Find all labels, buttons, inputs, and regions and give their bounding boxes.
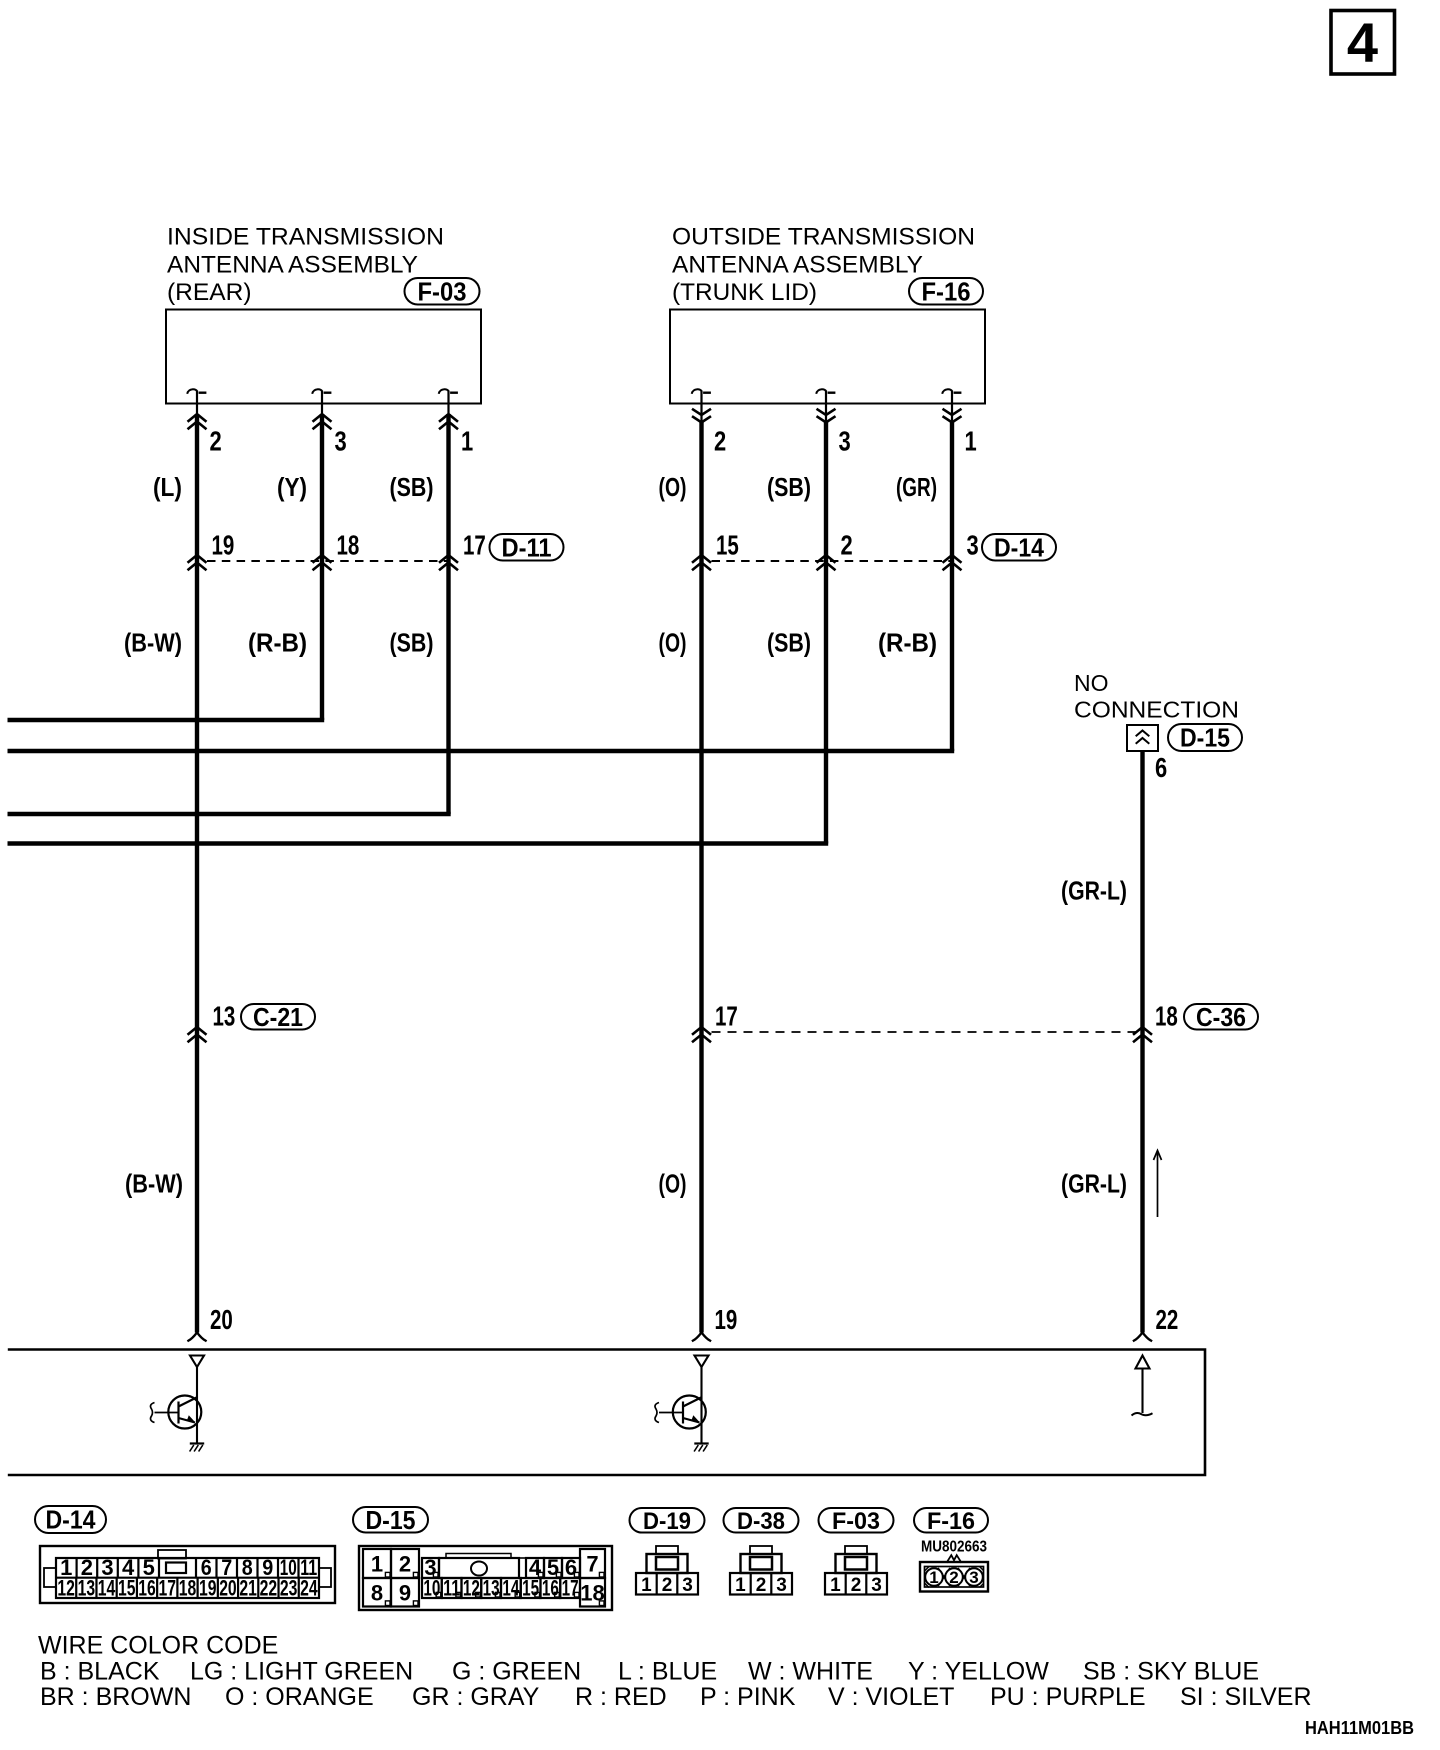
svg-text:ANTENNA ASSEMBLY: ANTENNA ASSEMBLY — [167, 252, 418, 279]
svg-text:(SB): (SB) — [390, 628, 434, 658]
svg-text:3: 3 — [969, 1568, 978, 1587]
in-line connector C-36 chevrons pin 17 — [692, 1027, 711, 1042]
svg-text:3: 3 — [839, 426, 851, 457]
bus wire (SB) trunk to page left at y=843.5 — [8, 841, 829, 845]
svg-text:(SB): (SB) — [767, 628, 811, 658]
svg-text:D-14: D-14 — [994, 532, 1044, 562]
connector label F-03 — [405, 276, 480, 306]
connector label F-03 (pinout) — [819, 1508, 894, 1535]
svg-text:(R-B): (R-B) — [878, 628, 937, 658]
connector chevrons F-16 pin 2 (female) — [692, 409, 711, 423]
svg-text:1: 1 — [735, 1575, 746, 1596]
svg-text:(GR-L): (GR-L) — [1061, 1169, 1127, 1199]
svg-text:12: 12 — [57, 1576, 75, 1601]
wire (O) from F-16 pin 2 — [699, 422, 703, 558]
component label: INSIDE TRANSMISSION ANTENNA ASSEMBLY (REAR) — [167, 224, 444, 307]
svg-text:1: 1 — [371, 1552, 383, 1577]
svg-text:6: 6 — [1155, 752, 1167, 783]
svg-text:F-16: F-16 — [927, 1508, 975, 1535]
svg-text:(O): (O) — [659, 472, 687, 502]
svg-text:O : ORANGE: O : ORANGE — [225, 1683, 374, 1711]
svg-text:PU : PURPLE: PU : PURPLE — [990, 1683, 1146, 1711]
svg-text:19: 19 — [212, 530, 235, 561]
connector chevrons F-16 pin 3 (female) — [817, 409, 836, 423]
pin number 3 (F-16) — [839, 426, 851, 457]
connector chevrons F-03 pin 3 — [313, 414, 332, 429]
wire color label (GR-L) upper — [1061, 876, 1127, 906]
connector F-03 pinout drawing (3-pin) — [825, 1546, 887, 1596]
junction pin number 18 (C-36) — [1155, 1001, 1178, 1032]
pin number 6 (D-15) — [1155, 752, 1167, 783]
junction pin number 13 (C-21) — [213, 1001, 236, 1032]
svg-text:ANTENNA ASSEMBLY: ANTENNA ASSEMBLY — [672, 252, 923, 279]
svg-text:NO: NO — [1074, 670, 1109, 696]
connector label D-19 (pinout) — [630, 1508, 705, 1535]
pin number 20 (receiver) — [210, 1304, 233, 1335]
pin number 22 (receiver) — [1156, 1304, 1179, 1335]
svg-text:13: 13 — [78, 1576, 96, 1601]
svg-text:18: 18 — [1155, 1001, 1178, 1032]
svg-text:D-14: D-14 — [46, 1505, 96, 1535]
wire end fork pin 20 — [187, 1333, 206, 1342]
terminal pin 2 of F-03 — [187, 389, 206, 415]
terminal pin 1 of F-03 — [439, 389, 458, 415]
svg-text:(TRUNK LID): (TRUNK LID) — [672, 279, 817, 306]
wire color label (GR-L) lower — [1061, 1169, 1127, 1199]
svg-text:(O): (O) — [659, 1169, 687, 1199]
svg-text:3: 3 — [335, 426, 347, 457]
svg-text:3: 3 — [871, 1575, 882, 1596]
connector chevrons F-03 pin 2 — [188, 414, 207, 429]
bus wire (R-B) trunk to page left at y=751 — [8, 749, 955, 753]
svg-text:F-16: F-16 — [922, 276, 971, 306]
svg-text:19: 19 — [199, 1576, 217, 1601]
svg-text:LG : LIGHT GREEN: LG : LIGHT GREEN — [190, 1658, 413, 1686]
svg-text:(L): (L) — [153, 472, 182, 502]
wire color label (SB) below D-14 — [767, 628, 811, 658]
wire end fork pin 19 — [692, 1333, 711, 1342]
junction pin number 18 (D-11) — [337, 530, 360, 561]
svg-text:(GR-L): (GR-L) — [1061, 876, 1127, 906]
connector D-38 pinout drawing (3-pin) — [730, 1546, 792, 1596]
svg-text:F-03: F-03 — [418, 276, 467, 306]
svg-text:9: 9 — [399, 1580, 411, 1605]
junction pin number 3 (D-14) — [967, 530, 979, 561]
svg-text:2: 2 — [841, 530, 853, 561]
svg-text:1: 1 — [641, 1575, 652, 1596]
connector F-16 pinout drawing (3-pin, MU802663) — [920, 1539, 988, 1592]
receiver module box (keyless entry receiver) — [8, 1350, 1205, 1476]
wire color label (R-B) below D-11 — [248, 628, 307, 658]
pin number 3 (F-03) — [335, 426, 347, 457]
svg-text:SI : SILVER: SI : SILVER — [1180, 1683, 1312, 1711]
svg-text:L : BLUE: L : BLUE — [618, 1658, 717, 1686]
svg-text:C-21: C-21 — [253, 1002, 303, 1032]
svg-text:INSIDE TRANSMISSION: INSIDE TRANSMISSION — [167, 224, 444, 251]
connector label C-21 — [241, 1002, 315, 1032]
wire (GR) from F-16 pin 1 — [950, 422, 954, 558]
in-line connector D-11 chevrons pin 18 — [313, 555, 332, 570]
wire (SB) trunk vertical drop to bus — [824, 557, 828, 844]
junction pin number 19 (D-11) — [212, 530, 235, 561]
svg-text:HAH11M01BB: HAH11M01BB — [1305, 1718, 1414, 1738]
wire color label (SB) — [390, 472, 434, 502]
svg-text:GR : GRAY: GR : GRAY — [412, 1683, 540, 1711]
wire color label (B-W) lower — [125, 1169, 183, 1199]
svg-text:G : GREEN: G : GREEN — [452, 1658, 581, 1686]
connector D-15 pinout drawing (18-pin) — [359, 1546, 612, 1610]
connector D-14 pinout drawing (24-pin) — [40, 1546, 335, 1603]
svg-text:21: 21 — [239, 1576, 257, 1601]
wire (O) main vertical run to pin 19 — [699, 557, 703, 1333]
svg-text:1: 1 — [830, 1575, 841, 1596]
svg-text:R : RED: R : RED — [575, 1683, 667, 1711]
connector label D-14 (pinout) — [35, 1505, 106, 1535]
svg-text:22: 22 — [1156, 1304, 1179, 1335]
svg-text:20: 20 — [210, 1304, 233, 1335]
svg-text:15: 15 — [118, 1576, 136, 1601]
junction pin number 15 (D-14) — [716, 530, 739, 561]
component box F-16 outside transmission antenna assembly — [670, 310, 985, 404]
svg-text:15: 15 — [716, 530, 739, 561]
wire end fork pin 22 — [1133, 1333, 1152, 1342]
internal antenna stub symbol (pin 22) — [1132, 1356, 1153, 1416]
svg-text:BR : BROWN: BR : BROWN — [40, 1683, 191, 1711]
svg-text:OUTSIDE TRANSMISSION: OUTSIDE TRANSMISSION — [672, 224, 975, 251]
svg-text:4: 4 — [1347, 11, 1378, 74]
in-line connector D-14 chevrons pin 15 — [692, 555, 711, 570]
svg-text:13: 13 — [213, 1001, 236, 1032]
drawing number HAH11M01BB — [1305, 1718, 1414, 1738]
svg-text:3: 3 — [682, 1575, 693, 1596]
svg-text:2: 2 — [210, 426, 222, 457]
in-line connector C-21 chevrons pin 13 — [188, 1027, 207, 1042]
connector label F-16 — [909, 276, 983, 306]
svg-text:(GR): (GR) — [896, 472, 937, 502]
wire (SB) from F-03 pin 1 — [446, 414, 450, 557]
antenna input transistor Q (rear receiver channel, pin 20) — [151, 1356, 205, 1452]
svg-text:24: 24 — [300, 1576, 318, 1601]
connector label D-14 (in-line) — [982, 532, 1056, 562]
connector label D-11 — [490, 532, 564, 562]
antenna input transistor Q (trunk lid receiver channel, pin 19) — [655, 1356, 709, 1452]
bus wire (R-B) to page left at y=720 — [8, 718, 325, 722]
wire (Y) from F-03 pin 3 — [320, 414, 324, 557]
svg-text:1: 1 — [929, 1568, 938, 1587]
svg-text:D-11: D-11 — [502, 532, 552, 562]
pin number 19 (receiver) — [715, 1304, 738, 1335]
svg-text:8: 8 — [371, 1580, 383, 1605]
connector label D-15 (no connection) — [1168, 723, 1242, 753]
terminal pin 2 of F-16 — [692, 389, 711, 423]
terminal pin 3 of F-03 — [312, 389, 331, 415]
wire color label (L) — [153, 472, 182, 502]
wire (R-B) trunk vertical drop to bus — [950, 557, 954, 751]
svg-text:D-15: D-15 — [1180, 723, 1230, 753]
wire color label (B-W) below D-11 — [124, 628, 182, 658]
wire (SB) from F-16 pin 3 — [824, 422, 828, 558]
wire color label (O) lower — [659, 1169, 687, 1199]
svg-text:14: 14 — [98, 1576, 116, 1601]
pin number 2 (F-16) — [714, 426, 726, 457]
svg-text:2: 2 — [949, 1568, 958, 1587]
wire color label (O) below D-14 — [659, 628, 687, 658]
svg-text:2: 2 — [851, 1575, 862, 1596]
svg-text:Y : YELLOW: Y : YELLOW — [908, 1658, 1049, 1686]
svg-text:2: 2 — [662, 1575, 673, 1596]
component box F-03 inside transmission antenna assembly — [166, 310, 481, 404]
svg-text:18: 18 — [337, 530, 360, 561]
connector label D-15 (pinout) — [353, 1505, 428, 1535]
dashed junction line D-11 — [207, 560, 449, 562]
svg-text:CONNECTION: CONNECTION — [1074, 697, 1239, 723]
signal direction arrow (GR-L) — [1154, 1151, 1162, 1218]
svg-text:22: 22 — [260, 1576, 278, 1601]
svg-text:7: 7 — [586, 1552, 598, 1577]
svg-text:2: 2 — [756, 1575, 767, 1596]
svg-text:(REAR): (REAR) — [167, 279, 252, 306]
svg-text:(R-B): (R-B) — [248, 628, 307, 658]
svg-text:17: 17 — [159, 1576, 177, 1601]
svg-text:P : PINK: P : PINK — [700, 1683, 796, 1711]
svg-text:3: 3 — [967, 530, 979, 561]
connector label C-36 — [1184, 1002, 1258, 1032]
wire color code legend — [38, 1632, 1312, 1712]
svg-text:2: 2 — [714, 426, 726, 457]
junction pin number 2 (D-14) — [841, 530, 853, 561]
in-line connector C-36 chevrons pin 18 — [1133, 1027, 1152, 1042]
svg-text:17: 17 — [463, 530, 486, 561]
connector label D-38 (pinout) — [724, 1508, 799, 1535]
wire (B-W) main vertical run to pin 20 — [195, 557, 199, 1333]
pin number 1 (F-03) — [461, 426, 473, 457]
wire (SB) vertical drop to bus — [446, 557, 450, 814]
svg-text:23: 23 — [280, 1576, 298, 1601]
svg-text:D-15: D-15 — [366, 1505, 416, 1535]
svg-text:1: 1 — [965, 426, 977, 457]
svg-text:WIRE COLOR CODE: WIRE COLOR CODE — [38, 1632, 278, 1660]
wire color label (Y) — [277, 472, 307, 502]
svg-text:16: 16 — [138, 1576, 156, 1601]
connector D-19 pinout drawing (3-pin) — [636, 1546, 698, 1596]
component label: OUTSIDE TRANSMISSION ANTENNA ASSEMBLY (TRUNK LID) — [672, 224, 975, 307]
svg-text:B : BLACK: B : BLACK — [40, 1658, 160, 1686]
svg-text:W : WHITE: W : WHITE — [748, 1658, 873, 1686]
svg-text:V : VIOLET: V : VIOLET — [828, 1683, 954, 1711]
svg-text:(SB): (SB) — [390, 472, 434, 502]
bus wire (SB) to page left at y=814 — [8, 812, 451, 816]
svg-text:20: 20 — [219, 1576, 237, 1601]
dashed junction line D-14 — [712, 560, 953, 562]
wire (GR-L) vertical run to pin 22 — [1140, 751, 1144, 1333]
svg-text:(B-W): (B-W) — [125, 1169, 183, 1199]
in-line connector D-11 chevrons pin 19 — [188, 555, 207, 570]
connector chevrons F-03 pin 1 — [439, 414, 458, 429]
wire color label (GR) — [896, 472, 937, 502]
svg-text:(O): (O) — [659, 628, 687, 658]
svg-text:1: 1 — [461, 426, 473, 457]
connector chevrons F-16 pin 1 (female) — [943, 409, 962, 423]
wire color label (SB) below D-11 — [390, 628, 434, 658]
terminal pin 3 of F-16 — [816, 389, 835, 423]
sheet number box "4" — [1331, 11, 1395, 75]
wire color label (O) — [659, 472, 687, 502]
svg-text:2: 2 — [399, 1552, 411, 1577]
svg-text:(B-W): (B-W) — [124, 628, 182, 658]
svg-text:C-36: C-36 — [1196, 1002, 1246, 1032]
NO CONNECTION label — [1074, 670, 1239, 723]
svg-text:F-03: F-03 — [832, 1508, 880, 1535]
svg-text:(Y): (Y) — [277, 472, 307, 502]
terminal pin 1 of F-16 — [942, 389, 961, 423]
pin number 2 (F-03) — [210, 426, 222, 457]
svg-text:D-38: D-38 — [737, 1508, 785, 1535]
svg-text:17: 17 — [715, 1001, 738, 1032]
junction pin number 17 (C-36) — [715, 1001, 738, 1032]
in-line connector D-14 chevrons pin 3 — [943, 555, 962, 570]
dashed junction line C-36 — [712, 1031, 1143, 1033]
connector label F-16 (pinout) — [914, 1508, 988, 1535]
svg-text:18: 18 — [179, 1576, 197, 1601]
wire (R-B) vertical drop to bus — [320, 557, 324, 720]
svg-text:SB : SKY BLUE: SB : SKY BLUE — [1083, 1658, 1259, 1686]
svg-text:D-19: D-19 — [643, 1508, 691, 1535]
junction pin number 17 (D-11) — [463, 530, 486, 561]
pin number 1 (F-16) — [965, 426, 977, 457]
svg-text:3: 3 — [776, 1575, 787, 1596]
in-line connector D-11 chevrons pin 17 — [439, 555, 458, 570]
svg-text:(SB): (SB) — [767, 472, 811, 502]
svg-text:19: 19 — [715, 1304, 738, 1335]
wire (L) from F-03 pin 2 — [195, 414, 199, 557]
svg-text:MU802663: MU802663 — [921, 1539, 987, 1556]
no-connection terminal box D-15 pin 6 — [1127, 725, 1158, 751]
wire color label (SB) — [767, 472, 811, 502]
wire color label (R-B) below D-14 — [878, 628, 937, 658]
in-line connector D-14 chevrons pin 2 — [817, 555, 836, 570]
